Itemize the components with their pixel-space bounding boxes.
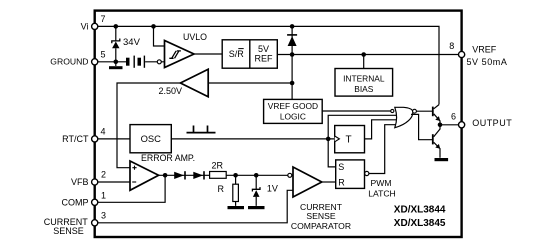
pin 1 terminal <box>92 199 98 205</box>
svg-text:R: R <box>338 177 345 187</box>
svg-text:2R: 2R <box>212 161 224 171</box>
block VREF GOOD LOGIC <box>264 99 323 123</box>
resistor 2R <box>210 172 227 179</box>
IC boundary box <box>95 11 462 237</box>
diode D3 <box>193 171 204 179</box>
svg-text:5: 5 <box>101 49 106 59</box>
svg-text:4: 4 <box>101 127 106 137</box>
svg-text:COMPARATOR: COMPARATOR <box>291 221 351 231</box>
wire comparator output to latch R input <box>322 181 336 183</box>
pin label VREF 5V 50mA <box>467 45 508 67</box>
inverter bubble gate top input <box>391 109 394 112</box>
wire zener 1V branch <box>255 175 257 206</box>
block INTERNAL BIAS <box>335 69 393 97</box>
ground symbol under R <box>228 206 245 209</box>
diode D2 <box>174 171 185 179</box>
wire VREF to internal bias <box>363 55 365 69</box>
label 5V REF <box>255 44 274 64</box>
wire clock to gate (blanking) <box>328 115 397 139</box>
svg-text:BIAS: BIAS <box>354 84 373 94</box>
svg-text:7: 7 <box>101 14 106 24</box>
amplifier 2.50V reference (points left) <box>180 69 208 97</box>
svg-text:RT/CT: RT/CT <box>62 134 89 144</box>
wire VREF down to VREF GOOD LOGIC <box>291 55 293 100</box>
diode D1 (VREF to Vi) <box>287 35 297 46</box>
block OSC <box>130 125 171 153</box>
svg-text:INTERNAL: INTERNAL <box>343 73 385 83</box>
node junction dot error amp output / COMP <box>163 173 168 178</box>
wire CURRENT SENSE pin to comparator + input <box>95 190 293 223</box>
wire VREF GOOD LOGIC to gate input <box>322 110 391 112</box>
comparator UVLO <box>165 41 195 68</box>
amplifier ERROR AMP <box>130 161 159 190</box>
ground symbol below pin5 junction <box>109 62 123 69</box>
svg-text:1V: 1V <box>267 184 278 194</box>
svg-text:PWM: PWM <box>370 178 391 188</box>
wire 2.50V output to error amp + input <box>117 83 180 168</box>
zener diode 34V <box>112 39 120 49</box>
svg-text:34V: 34V <box>123 37 141 48</box>
wire T output to gate <box>365 120 398 139</box>
inverter bubble comparator input <box>288 173 292 177</box>
svg-text:OSC: OSC <box>141 133 162 144</box>
wire VREF rail to pin 8 <box>277 54 461 56</box>
wire error amp output rail <box>159 174 293 176</box>
wire PWM latch output to gate <box>369 125 396 174</box>
zener diode 1V <box>252 187 260 197</box>
svg-text:VREF GOOD: VREF GOOD <box>268 101 318 111</box>
node junction dot Vi/diode <box>290 24 295 29</box>
wire to 2.50V reference amp input <box>208 82 292 84</box>
pin 7 terminal <box>92 23 98 29</box>
node junction dot 2.5V ref tap <box>290 81 295 86</box>
svg-text:S: S <box>338 162 344 172</box>
svg-text:5V 50mA: 5V 50mA <box>467 57 508 67</box>
pin 5 terminal <box>92 59 98 65</box>
svg-text:VFB: VFB <box>71 177 89 187</box>
wire divider to resistor R <box>235 175 237 206</box>
pin 2 terminal <box>92 179 98 185</box>
node junction dot VREF/internal bias <box>361 52 366 57</box>
comparator CURRENT SENSE <box>293 167 322 197</box>
block S/R and 5V REF <box>222 40 277 68</box>
node junction dot VREF/diode <box>290 52 295 57</box>
svg-text:SENSE: SENSE <box>53 226 84 236</box>
wire gate output to top transistor base <box>416 110 432 112</box>
pin 8 terminal <box>459 51 465 57</box>
gate output NOR <box>395 107 417 127</box>
wire Vi rail (pin7 to right side, down to output transistor collector) <box>95 26 439 104</box>
node junction dot clock <box>326 137 331 142</box>
svg-text:OUTPUT: OUTPUT <box>472 118 512 128</box>
wire ground line from pin 5 <box>95 61 126 63</box>
wire COMP pin to error amp output <box>95 175 165 202</box>
svg-text:2: 2 <box>101 170 106 180</box>
pin 3 terminal <box>92 220 98 226</box>
label CURRENT SENSE COMPARATOR <box>291 202 351 231</box>
pin label CURRENT SENSE <box>44 217 89 236</box>
node junction dot Vi/UVLO tap <box>151 24 156 29</box>
svg-text:LOGIC: LOGIC <box>280 111 306 121</box>
node junction dot ground/zener <box>114 60 119 65</box>
node junction dot zener tap <box>254 173 259 178</box>
wire UVLO sense tap <box>154 26 165 46</box>
svg-text:2.50V: 2.50V <box>158 86 182 96</box>
node junction dot output emitter <box>438 123 443 128</box>
wire VFB pin to error amp - input <box>95 181 130 183</box>
wire OSC output to T flip-flop <box>171 138 334 140</box>
svg-text:XD/XL3844: XD/XL3844 <box>394 205 446 216</box>
svg-text:Vi: Vi <box>81 21 89 31</box>
ground symbol under Q2 <box>435 158 449 161</box>
label S/R-bar <box>229 49 245 60</box>
inverter bubble PWM latch output <box>365 171 369 175</box>
flip-flop T <box>335 126 365 153</box>
svg-text:T: T <box>345 135 351 146</box>
label PWM LATCH <box>368 178 396 198</box>
battery cell B2 (UVLO threshold) <box>138 56 146 68</box>
svg-text:ERROR AMP.: ERROR AMP. <box>141 153 195 163</box>
wire diode branch Vi to VREF <box>291 26 293 54</box>
clock waveform glyph <box>187 126 216 133</box>
svg-text:REF: REF <box>255 53 274 63</box>
node junction dot Vi/zener <box>114 24 119 29</box>
svg-text:3: 3 <box>101 210 106 220</box>
svg-text:R: R <box>218 184 225 194</box>
svg-text:S/R: S/R <box>229 49 245 59</box>
svg-text:8: 8 <box>449 41 454 51</box>
svg-text:1: 1 <box>101 190 106 200</box>
wire gate to bottom transistor base <box>411 114 432 139</box>
svg-text:5V: 5V <box>258 44 269 54</box>
wire to OUTPUT pin 6 <box>440 124 462 126</box>
svg-text:GROUND: GROUND <box>50 57 88 67</box>
wire battery to UVLO input <box>145 61 164 63</box>
pin 6 terminal <box>459 122 465 128</box>
svg-text:COMP: COMP <box>62 197 89 207</box>
svg-text:XD/XL3845: XD/XL3845 <box>394 218 446 229</box>
latch PWM (S R) <box>336 160 365 189</box>
svg-text:LATCH: LATCH <box>368 188 396 198</box>
pin 4 terminal <box>92 136 98 142</box>
svg-text:SENSE: SENSE <box>306 211 335 221</box>
ground symbol under zener 1V <box>248 206 265 209</box>
wire zener branch <box>115 26 117 61</box>
node junction dot divider top <box>233 173 238 178</box>
transistor Q2 (totem pole bottom) <box>432 125 440 158</box>
wire clock to PWM latch S input <box>328 139 336 167</box>
inverter bubble UVLO input <box>157 60 161 64</box>
svg-text:VREF: VREF <box>472 45 497 55</box>
wire UVLO output to S/R box <box>194 53 222 55</box>
svg-text:6: 6 <box>451 112 456 122</box>
svg-text:UVLO: UVLO <box>183 32 207 42</box>
battery cell B1 (UVLO threshold) <box>126 56 135 68</box>
transistor Q1 (totem pole top) <box>432 105 440 125</box>
resistor R <box>233 184 239 201</box>
wire RT/CT pin to oscillator <box>95 138 130 140</box>
